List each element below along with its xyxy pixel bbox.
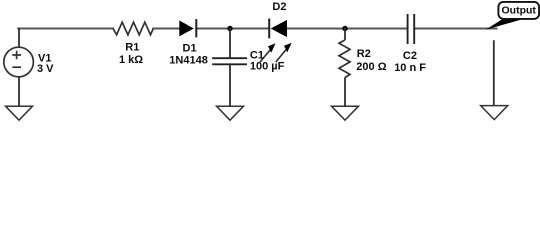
svg-text:1 kΩ: 1 kΩ [119, 54, 143, 66]
wire C2 to output [415, 28, 497, 30]
node junction R2 [342, 26, 347, 31]
svg-text:10 n F: 10 n F [394, 62, 426, 74]
svg-text:1N4148: 1N4148 [169, 54, 208, 66]
svg-text:R2: R2 [357, 48, 371, 60]
LED D2 arrow 1 [260, 43, 276, 62]
wire rail V1 to R1 [18, 28, 113, 30]
voltage source V1 [4, 28, 34, 106]
svg-text:200 Ω: 200 Ω [356, 61, 386, 73]
wire output down [493, 40, 495, 105]
ground output [481, 106, 508, 120]
wire node to C1 [229, 29, 231, 58]
node junction C1 [227, 26, 232, 31]
wire D1 to node C1 [196, 28, 230, 30]
wire top [18, 28, 20, 48]
capacitor C2 plates [408, 14, 415, 44]
wire R1 to D1 [153, 28, 179, 30]
ground V1 [6, 106, 33, 120]
output flag pointer [486, 19, 524, 30]
svg-text:Output: Output [502, 5, 537, 17]
V1 circle [4, 47, 34, 77]
wire D2 to node R2 [287, 28, 345, 30]
ground R2 [332, 106, 359, 120]
LED D2 arrow 2 [276, 43, 292, 62]
wire bottom [18, 77, 20, 106]
wire node C1 to D2 [230, 28, 269, 30]
V1 minus [12, 66, 21, 68]
svg-text:D2: D2 [272, 1, 286, 13]
output flag box [498, 2, 539, 19]
resistor R2 [339, 28, 350, 106]
svg-text:C2: C2 [403, 50, 417, 62]
wire C1 to ground [229, 65, 231, 106]
diode D1 [179, 19, 196, 37]
LED D2 [269, 19, 287, 39]
svg-text:R1: R1 [125, 42, 139, 54]
svg-text:100 µF: 100 µF [250, 61, 285, 73]
V1 plus [12, 51, 21, 60]
svg-text:3 V: 3 V [37, 63, 54, 75]
horizontal top rail wires [18, 28, 496, 30]
svg-text:C1: C1 [250, 50, 264, 62]
wire node R2 to C2 [345, 28, 407, 30]
ground C1 [217, 106, 244, 120]
svg-text:D1: D1 [183, 42, 197, 54]
resistor R1 [113, 22, 153, 35]
capacitor C1 plates [212, 58, 247, 64]
